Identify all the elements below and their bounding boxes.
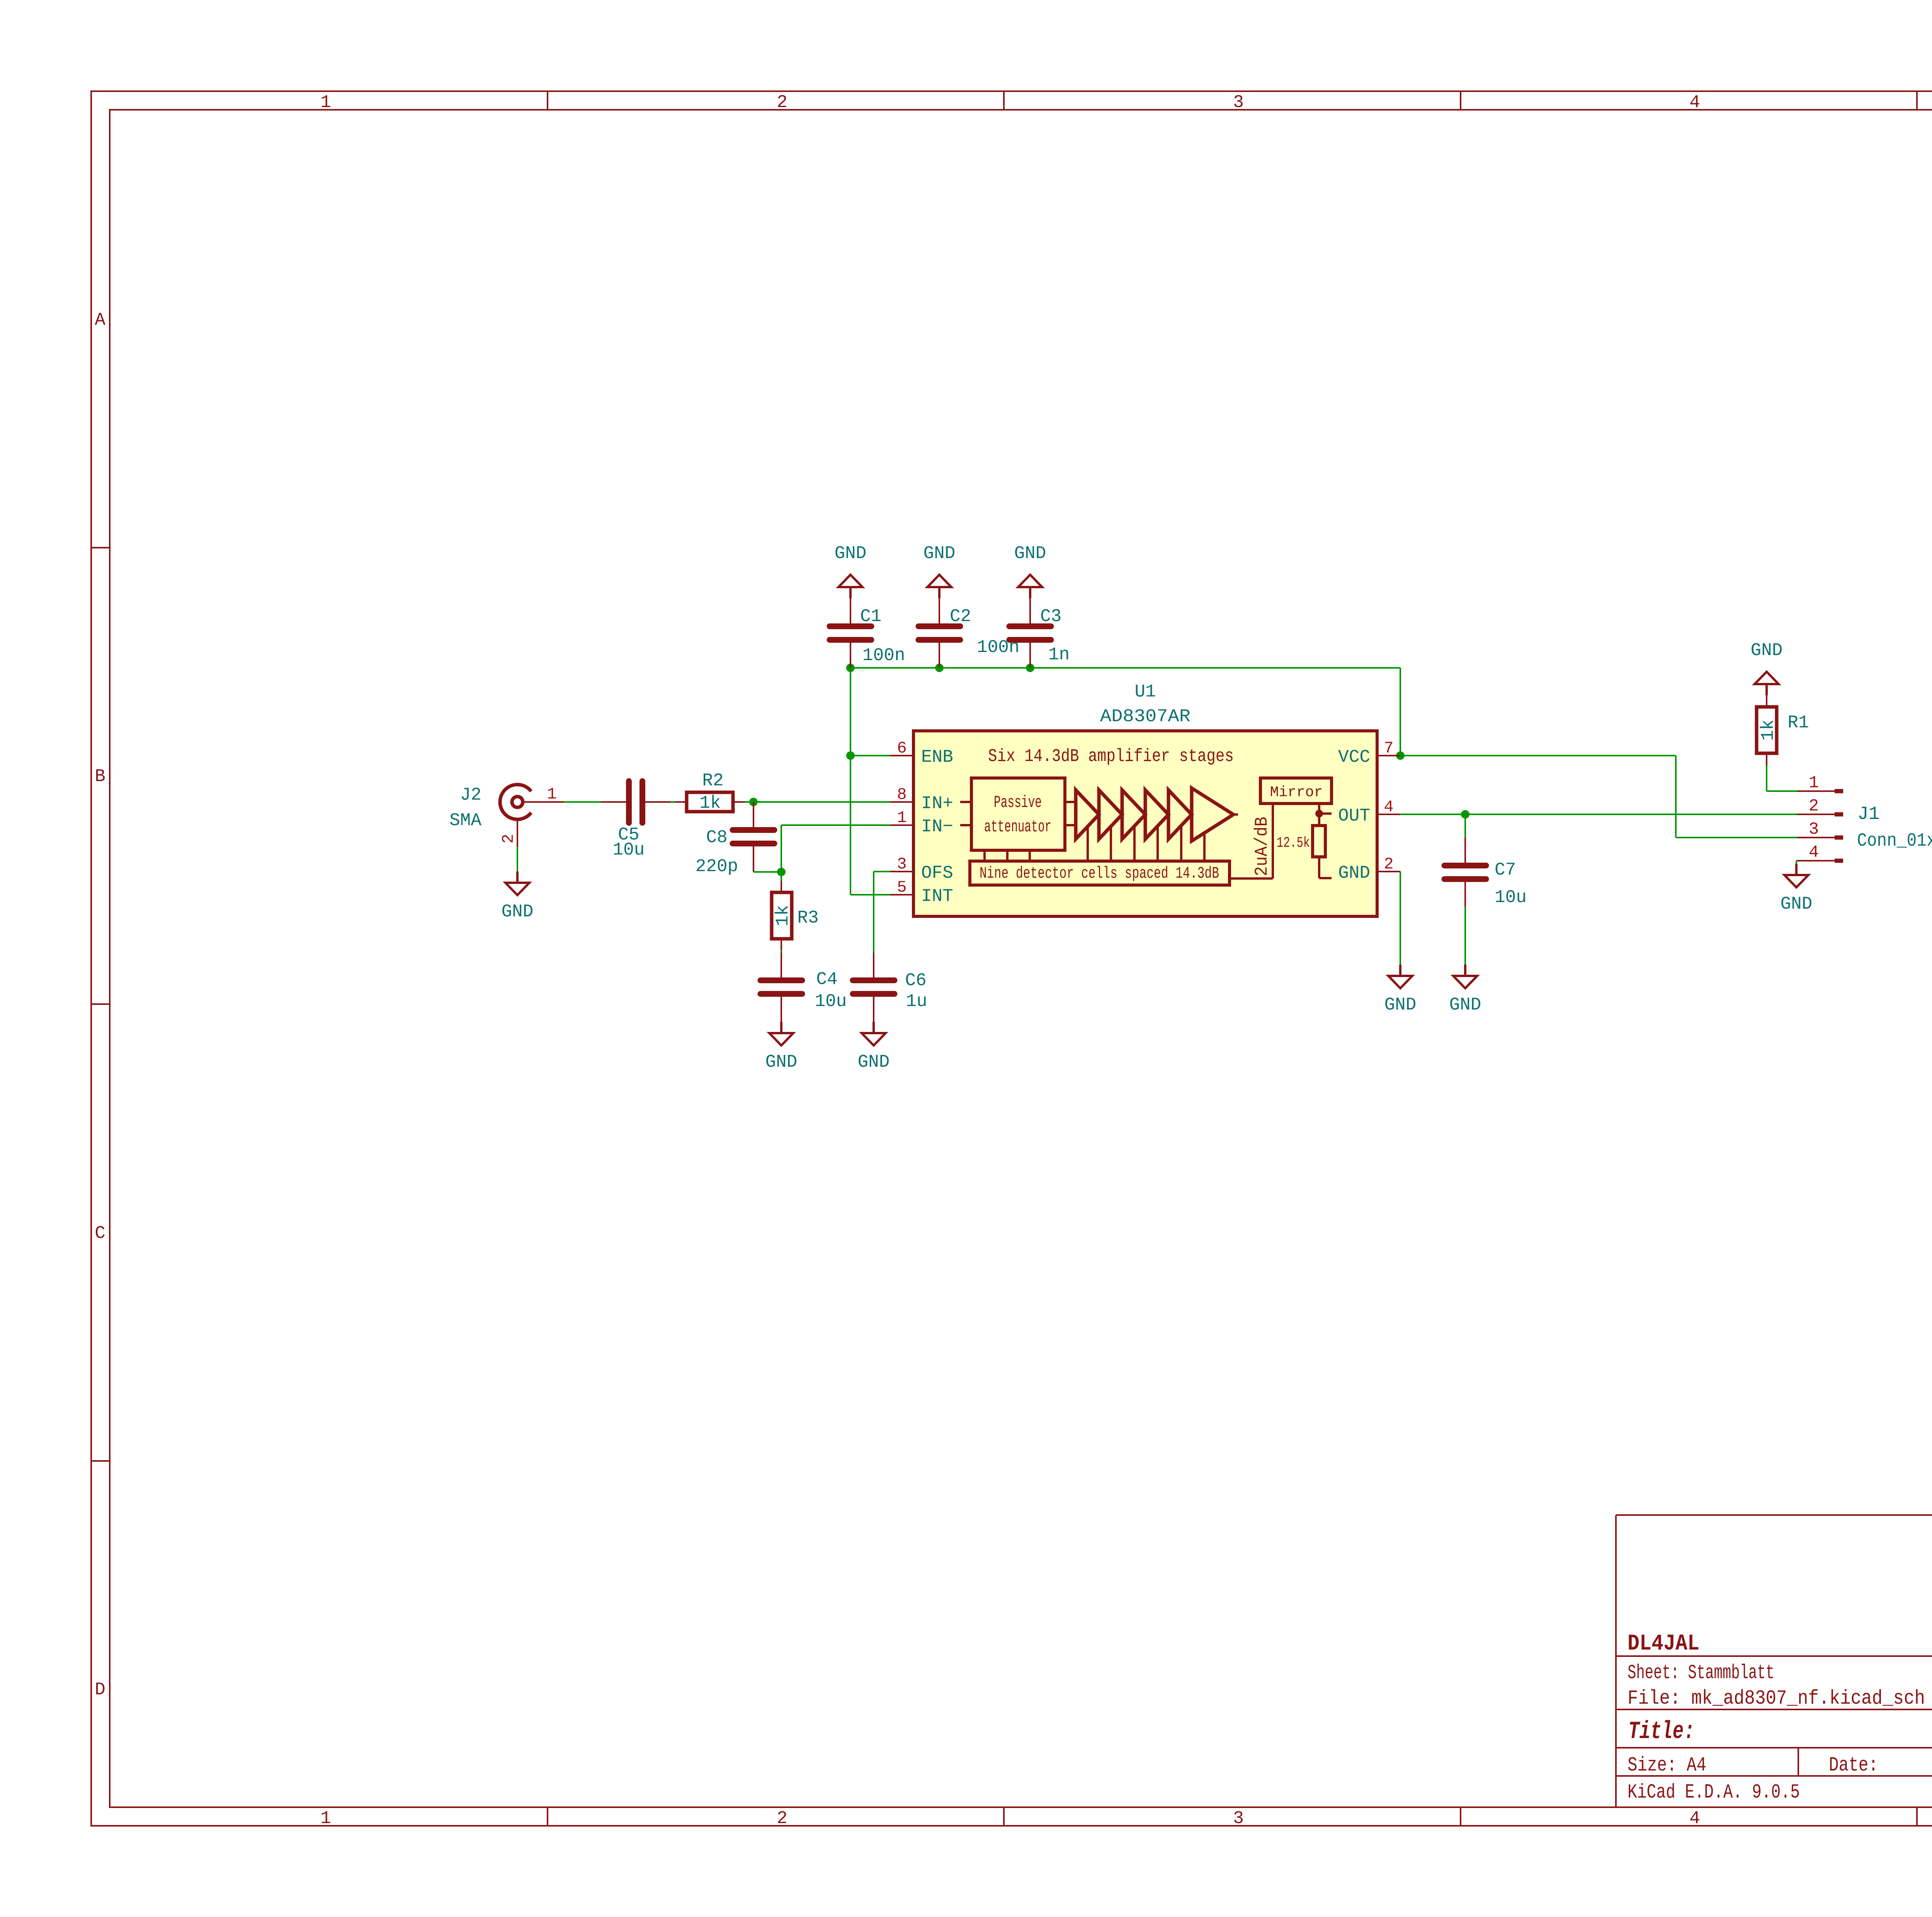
svg-text:3: 3 [1233, 92, 1244, 112]
svg-text:IN−: IN− [921, 817, 953, 837]
resistor R2 [675, 771, 745, 813]
svg-text:100n: 100n [862, 645, 905, 666]
svg-text:GND: GND [1449, 995, 1481, 1015]
svg-text:J2: J2 [460, 785, 481, 805]
svg-text:4: 4 [1384, 798, 1393, 816]
svg-text:1u: 1u [906, 991, 927, 1011]
junction at ENB branch [846, 751, 855, 760]
capacitor C3 [1009, 598, 1070, 668]
capacitor C1 [830, 598, 905, 668]
svg-text:C: C [95, 1223, 105, 1243]
svg-text:GND: GND [835, 543, 867, 564]
svg-text:2: 2 [777, 1808, 787, 1828]
svg-text:A: A [95, 310, 105, 330]
svg-text:10u: 10u [815, 991, 847, 1011]
U1 pin 8 IN+ [890, 785, 953, 814]
svg-text:2: 2 [499, 834, 518, 843]
svg-text:OUT: OUT [1338, 806, 1370, 826]
svg-text:2: 2 [1384, 855, 1393, 873]
svg-text:GND: GND [502, 902, 534, 922]
U1 pin 6 ENB [890, 739, 953, 767]
svg-text:C8: C8 [706, 827, 727, 848]
capacitor C8 [696, 802, 774, 877]
svg-text:U1: U1 [1134, 682, 1156, 702]
svg-text:DL4JAL: DL4JAL [1628, 1631, 1699, 1657]
svg-text:1: 1 [320, 1808, 331, 1828]
junction at C2 bus [935, 664, 944, 672]
svg-text:1: 1 [897, 809, 906, 827]
wire J1 pin4 to flag [1796, 861, 1797, 864]
svg-text:INT: INT [921, 886, 953, 906]
ground flag below C4 [765, 1022, 798, 1072]
svg-text:12.5k: 12.5k [1277, 835, 1310, 851]
border column ticks bottom [548, 1807, 1932, 1826]
U1 internal detector cells box [970, 861, 1230, 885]
svg-text:1k: 1k [773, 905, 793, 926]
svg-text:GND: GND [923, 543, 956, 564]
svg-text:Passive: Passive [994, 793, 1042, 812]
wire power bus VCC net [850, 668, 1400, 756]
border column ticks top [548, 91, 1932, 110]
U1 pin 1 IN- [890, 809, 953, 837]
svg-text:OFS: OFS [921, 863, 953, 883]
ground flag above C1 [835, 543, 867, 598]
title block frame [1616, 1515, 1932, 1807]
svg-text:8: 8 [897, 785, 906, 804]
U1 internal detector taps [985, 826, 1204, 861]
svg-text:Conn_01x04_Pin: Conn_01x04_Pin [1857, 831, 1932, 851]
svg-text:1: 1 [320, 92, 331, 112]
svg-text:220p: 220p [696, 856, 738, 877]
svg-text:6: 6 [897, 739, 906, 758]
svg-text:Nine detector cells spaced 14.: Nine detector cells spaced 14.3dB [980, 864, 1219, 883]
svg-text:Title:: Title: [1628, 1718, 1695, 1746]
U1 pin 5 INT [890, 878, 953, 906]
wire VCC to J1 pin3 [1400, 756, 1797, 838]
U1 pin 2 GND [1338, 855, 1400, 883]
svg-text:GND: GND [1384, 995, 1417, 1015]
svg-text:IN+: IN+ [921, 793, 953, 814]
wire ENB/INT vertical net [850, 668, 890, 895]
ground flag below J2 [502, 872, 534, 922]
border column labels bottom [320, 1808, 1932, 1828]
ground flag below J1 pin4 [1781, 864, 1813, 914]
junction at C3 bus [1026, 664, 1034, 672]
svg-text:Size: A4: Size: A4 [1628, 1754, 1706, 1777]
connector J1 pin 1 [1797, 773, 1843, 793]
connector J1 pin 2 [1797, 797, 1843, 817]
svg-text:GND: GND [1014, 543, 1046, 564]
svg-text:R1: R1 [1787, 713, 1809, 733]
svg-text:J1: J1 [1857, 804, 1880, 825]
svg-text:VCC: VCC [1338, 747, 1370, 767]
wire J2 pin2 to flag [517, 847, 518, 872]
junction at OUT/C7 [1461, 810, 1469, 819]
IC U1 AD8307AR body [913, 682, 1377, 916]
capacitor C2 [918, 598, 1019, 668]
svg-text:C2: C2 [950, 606, 971, 627]
svg-text:C6: C6 [905, 970, 926, 991]
svg-text:4: 4 [1809, 843, 1819, 862]
junction at C1 bus [846, 664, 855, 672]
svg-text:Sheet: Stammblatt: Sheet: Stammblatt [1628, 1662, 1774, 1684]
capacitor C5 [601, 781, 670, 860]
border row labels left and right [95, 310, 1932, 1700]
junction at VCC pin [1396, 751, 1405, 760]
connector J1 labels [1857, 804, 1932, 851]
svg-text:Mirror: Mirror [1270, 784, 1323, 801]
svg-text:KiCad E.D.A. 9.0.5: KiCad E.D.A. 9.0.5 [1628, 1781, 1800, 1804]
svg-text:4: 4 [1689, 1808, 1700, 1828]
wire R1 bottom to J1 pin1 [1767, 765, 1797, 791]
U1 internal passive attenuator box [960, 778, 1076, 850]
svg-text:GND: GND [765, 1052, 798, 1072]
ground flag below C6 [858, 1022, 890, 1072]
svg-text:C4: C4 [816, 969, 837, 989]
svg-text:2: 2 [1809, 797, 1819, 816]
svg-text:File: mk_ad8307_nf.kicad_sch: File: mk_ad8307_nf.kicad_sch [1628, 1687, 1925, 1710]
svg-text:1k: 1k [699, 793, 721, 813]
capacitor C4 [760, 953, 847, 1022]
svg-text:B: B [95, 766, 105, 787]
ground flag below U1 pin2 [1384, 965, 1417, 1015]
svg-text:AD8307AR: AD8307AR [1100, 707, 1190, 727]
svg-text:C3: C3 [1040, 606, 1061, 627]
wire OUT to J1 pin2 [1400, 814, 1797, 838]
U1 pin 3 OFS [890, 855, 953, 883]
wire input row J2 to IN+ [564, 801, 890, 803]
svg-text:SMA: SMA [449, 810, 481, 831]
svg-text:10u: 10u [613, 840, 645, 860]
capacitor C7 [1444, 838, 1527, 907]
junction at C8/R3/IN- node [777, 868, 786, 876]
svg-text:3: 3 [1233, 1808, 1244, 1828]
junction at R2 output [749, 798, 758, 806]
wire C7 bottom to flag [1464, 907, 1466, 965]
svg-text:C1: C1 [860, 606, 881, 627]
svg-text:D: D [95, 1680, 105, 1700]
svg-text:ENB: ENB [921, 747, 953, 767]
border row ticks left and right [91, 548, 1932, 1461]
U1 internal mirror box [1260, 778, 1332, 804]
svg-text:GND: GND [858, 1052, 890, 1072]
svg-text:5: 5 [897, 878, 906, 897]
U1 internal detector to mirror link [1230, 804, 1273, 878]
border column labels top [320, 92, 1932, 112]
svg-text:1n: 1n [1048, 645, 1070, 665]
svg-text:1k: 1k [1758, 719, 1778, 741]
svg-text:2: 2 [777, 92, 787, 112]
svg-text:R2: R2 [702, 771, 723, 791]
svg-text:Six 14.3dB amplifier stages: Six 14.3dB amplifier stages [988, 746, 1234, 766]
svg-text:10u: 10u [1495, 887, 1527, 907]
svg-text:C7: C7 [1495, 860, 1516, 880]
wire IN- to node and R3 [781, 825, 890, 953]
svg-text:3: 3 [1809, 820, 1819, 839]
svg-text:7: 7 [1384, 739, 1393, 758]
svg-text:1: 1 [1809, 773, 1819, 793]
svg-text:GND: GND [1751, 640, 1783, 661]
connector J2 SMA [449, 785, 564, 847]
resistor R3 [772, 881, 819, 950]
svg-text:R3: R3 [797, 908, 818, 928]
connector J1 pin 4 [1797, 843, 1843, 863]
U1 pin 7 VCC [1338, 739, 1400, 767]
svg-text:3: 3 [897, 855, 906, 873]
svg-text:2uA/dB: 2uA/dB [1252, 817, 1272, 876]
ground flag above R1 [1751, 640, 1783, 695]
connector J1 pin 3 [1797, 820, 1843, 840]
svg-text:1: 1 [547, 785, 556, 804]
U1 pin 4 OUT [1338, 798, 1400, 826]
resistor R1 [1757, 695, 1809, 765]
ground flag above C3 [1014, 543, 1046, 598]
U1 internal 12.5k resistor [1277, 804, 1332, 878]
U1 internal amplifier triangles [1076, 788, 1238, 841]
svg-text:attenuator: attenuator [984, 817, 1051, 837]
wire C8 bottom to node [753, 872, 781, 872]
ground flag above C2 [923, 543, 956, 598]
wire U1 GND pin to flag [1400, 872, 1401, 965]
svg-text:GND: GND [1338, 863, 1370, 883]
capacitor C6 [853, 953, 927, 1022]
svg-text:GND: GND [1781, 894, 1813, 914]
wire OFS to C6 [874, 872, 890, 953]
svg-text:Date:: Date: [1829, 1754, 1878, 1777]
ground flag below C7 [1449, 965, 1481, 1015]
svg-text:4: 4 [1689, 92, 1700, 112]
